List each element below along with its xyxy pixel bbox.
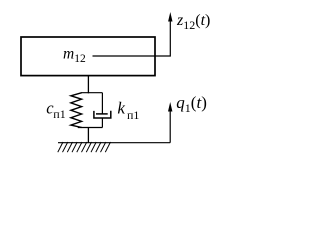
wire stub from mass bottom [87,75,89,93]
damper cup [94,111,111,118]
ground hatching [58,142,111,152]
wire q arrow riser [169,111,171,143]
damper rod bottom [101,118,103,128]
svg-text:п1: п1 [127,108,139,122]
spring c_p1 [71,93,82,128]
svg-text:k: k [117,99,125,118]
mass m12 box [21,37,155,76]
ground line [58,142,170,144]
wire center to ground [87,128,89,143]
svg-text:п1: п1 [53,107,65,121]
damper rod top [101,93,103,115]
svg-text:q1(t): q1(t) [176,93,207,115]
wire top branch [82,92,103,94]
wire lead from m12 to z arrow [93,20,171,56]
wire bottom branch [78,127,103,129]
arrow head q1 [168,102,172,112]
damper piston [96,113,108,115]
arrow head z12 [168,12,172,22]
